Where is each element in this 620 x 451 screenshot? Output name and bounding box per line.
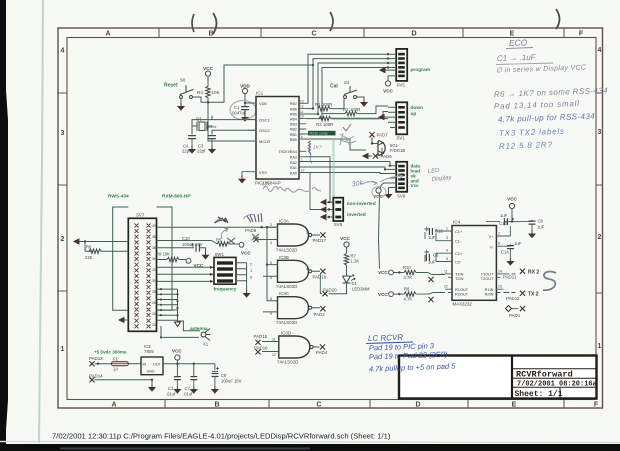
- svg-text:S0: S0: [180, 78, 186, 83]
- ground below 7805: [149, 384, 155, 391]
- long wire VCC net down to MAX resistors: [379, 193, 380, 268]
- svg-text:GND: GND: [147, 370, 156, 374]
- frame row ticks left: [58, 93, 67, 291]
- svg-text:6: 6: [301, 135, 303, 139]
- connector SV1: [384, 102, 423, 140]
- svg-text:4: 4: [306, 267, 308, 271]
- wire PAD7 to transistor: [372, 137, 378, 143]
- svg-text:74ALS02D: 74ALS02D: [276, 248, 297, 253]
- svg-text:4.7K: 4.7K: [404, 275, 413, 280]
- wire VDD to IC1 pin: [245, 94, 256, 103]
- op IC1 PIC16F84AP body: [255, 91, 299, 186]
- svg-text:VCC: VCC: [172, 349, 182, 354]
- svg-text:C: C: [311, 31, 316, 38]
- svg-text:IN: IN: [143, 363, 147, 367]
- svg-text:RX 2: RX 2: [528, 269, 539, 275]
- pad PAD19: [314, 306, 326, 317]
- svg-text:PAD13: PAD13: [89, 356, 103, 361]
- svg-text:1uF: 1uF: [428, 260, 436, 265]
- svg-text:.0047uF: .0047uF: [231, 111, 247, 116]
- svg-text:3: 3: [598, 129, 602, 136]
- ground below C2: [174, 386, 180, 393]
- wire RB0 to transistor base: [306, 139, 366, 150]
- svg-text:f.7k: f.7k: [262, 182, 271, 188]
- svg-text:74ALS02D: 74ALS02D: [277, 359, 298, 364]
- svg-text:VCC: VCC: [241, 251, 251, 256]
- svg-text:+5 5vdc 300ma: +5 5vdc 300ma: [94, 350, 127, 355]
- svg-text:12: 12: [444, 285, 448, 289]
- svg-text:TX 2: TX 2: [528, 291, 539, 297]
- svg-text:VCC: VCC: [378, 292, 388, 297]
- svg-text:3: 3: [270, 241, 272, 245]
- svg-text:1: 1: [598, 343, 602, 350]
- power VDD: [240, 84, 250, 94]
- pencil resistor sketch on RB1 net: [309, 141, 311, 155]
- svg-text:PAD4: PAD4: [316, 350, 328, 355]
- svg-text:PAD1: PAD1: [509, 313, 521, 318]
- module outline right: [157, 207, 173, 310]
- pencil X over R5: [227, 238, 235, 244]
- svg-text:PAD15: PAD15: [254, 334, 268, 339]
- svg-text:PAD8: PAD8: [245, 228, 257, 233]
- IC1 right pin stubs: [299, 103, 306, 172]
- svg-text:IC3C: IC3C: [279, 291, 289, 296]
- wire RA0 long run to SV9: [306, 173, 389, 174]
- svg-text:5: 5: [270, 261, 272, 265]
- svg-text:32: 32: [152, 268, 156, 272]
- SV7 pin numbers right column: [152, 224, 156, 327]
- svg-text:F1: F1: [113, 356, 119, 361]
- svg-text:C14: C14: [501, 250, 509, 255]
- connector SV8: [327, 198, 376, 227]
- svg-text:VCC: VCC: [340, 236, 350, 241]
- svg-text:RB3: RB3: [290, 123, 297, 127]
- svg-text:D1: D1: [352, 281, 358, 286]
- svg-text:T2IN: T2IN: [455, 276, 464, 281]
- pencil X near PAD8: [252, 234, 259, 240]
- svg-text:7805: 7805: [144, 349, 154, 354]
- pad PAD20: [322, 288, 337, 297]
- svg-text:7/02/2001 12:30:11p C:/Progra: 7/02/2001 12:30:11p C:/Program Files/EAG…: [52, 432, 391, 441]
- svg-text:R4: R4: [197, 90, 203, 95]
- capacitor C10: [157, 236, 206, 252]
- svg-text:R9 10K: R9 10K: [156, 252, 170, 257]
- svg-text:non-inverted: non-inverted: [347, 201, 376, 207]
- drawing frame inner border: [67, 38, 596, 400]
- svg-text:C13: C13: [499, 221, 507, 226]
- resistor R10: [378, 265, 445, 280]
- wire bus SW1 right to ground: [236, 263, 247, 290]
- wire RB6 to SV5: [306, 59, 388, 109]
- svg-text:3: 3: [446, 236, 448, 240]
- svg-text:inverted: inverted: [347, 212, 366, 218]
- svg-text:VCC: VCC: [383, 89, 393, 94]
- svg-text:OSC1: OSC1: [259, 118, 270, 123]
- svg-text:down: down: [411, 105, 424, 111]
- svg-text:RWS-434: RWS-434: [108, 194, 129, 200]
- wire RB1 stub to label: [306, 133, 308, 135]
- svg-text:T2OUT: T2OUT: [481, 276, 494, 281]
- svg-text:RB0: RB0: [290, 138, 297, 142]
- svg-text:E: E: [510, 31, 515, 38]
- svg-text:B: B: [214, 402, 219, 409]
- wire R3 to SV1 arrow (highlighted net): [331, 118, 379, 120]
- pad circle right of R5: [239, 242, 251, 255]
- IC4 right pin labels: [481, 234, 494, 296]
- pad PAD14: [89, 373, 103, 382]
- op IC4 MAX3232 body: [452, 220, 496, 307]
- svg-text:9: 9: [270, 312, 272, 316]
- svg-text:2: 2: [61, 236, 65, 243]
- svg-text:R10: R10: [403, 265, 411, 270]
- svg-text:28: 28: [152, 290, 156, 294]
- wire SV9 Vcc pin to VCC: [381, 183, 389, 188]
- svg-text:C8: C8: [538, 219, 544, 224]
- svg-text:24: 24: [152, 312, 156, 316]
- svg-text:SV9: SV9: [397, 194, 406, 199]
- svg-text:RA0: RA0: [290, 171, 297, 175]
- svg-text:1: 1: [61, 346, 65, 353]
- svg-text:1: 1: [446, 227, 448, 231]
- svg-text:22pf: 22pf: [197, 149, 206, 154]
- wire MCLR net to program header: [208, 65, 313, 102]
- power VCC above R4: [203, 66, 213, 76]
- wire bus SV7 to SW1: [157, 267, 211, 281]
- wire staircase bus SV7 to ground: [157, 289, 201, 331]
- svg-text:17: 17: [301, 169, 305, 173]
- svg-text:VCC: VCC: [507, 197, 517, 202]
- svg-text:VCC: VCC: [203, 66, 213, 71]
- column letters top: [105, 31, 583, 38]
- svg-text:IC3A: IC3A: [279, 219, 289, 224]
- svg-text:frequency: frequency: [214, 287, 237, 293]
- svg-text:PAD20: PAD20: [323, 288, 337, 293]
- IC1 left pin stubs: [248, 103, 256, 172]
- svg-text:7/02/2001 08:20:16a: 7/02/2001 08:20:16a: [517, 380, 598, 388]
- svg-text:SV1: SV1: [397, 136, 406, 141]
- svg-text:0: 0: [250, 276, 252, 280]
- module outline left: [113, 207, 129, 310]
- svg-text:V+: V+: [489, 234, 495, 239]
- power VCC above R7: [340, 236, 350, 253]
- svg-text:6: 6: [270, 276, 272, 280]
- pencil squiggle S near RX2: [543, 272, 556, 291]
- svg-text:4: 4: [61, 48, 65, 55]
- svg-text:C2-: C2-: [455, 260, 462, 265]
- svg-text:LED: LED: [428, 168, 441, 175]
- svg-text:ECO: ECO: [509, 37, 528, 48]
- capacitor C8: [511, 219, 545, 231]
- svg-text:40: 40: [152, 224, 156, 228]
- svg-text:2: 2: [598, 234, 602, 241]
- svg-text:S4: S4: [344, 80, 350, 85]
- switch S4 Cal: [330, 80, 364, 99]
- wire PAD14 to ground: [95, 380, 152, 384]
- frame column ticks top: [159, 28, 564, 38]
- svg-text:VDD: VDD: [240, 84, 250, 89]
- svg-text:38: 38: [152, 235, 156, 239]
- power VCC below SV9: [373, 188, 383, 199]
- pencil marks at RF pads top: [247, 213, 262, 222]
- svg-text:PAD12: PAD12: [506, 296, 520, 301]
- svg-text:SV8: SV8: [334, 222, 343, 227]
- svg-text:4: 4: [446, 249, 448, 253]
- gate IC3D 74ALS02D: [262, 331, 320, 365]
- node junction at reset: [207, 101, 210, 104]
- svg-text:E: E: [512, 402, 517, 409]
- svg-text:VCC: VCC: [378, 270, 388, 275]
- svg-text:up: up: [411, 112, 417, 117]
- punch hole mark left pair: [192, 14, 194, 32]
- svg-text:13: 13: [300, 99, 304, 103]
- punch hole mark middle: [330, 12, 333, 31]
- IC1 right pin labels: [278, 102, 297, 175]
- connector SV9: [389, 162, 421, 199]
- svg-text:C12: C12: [435, 229, 443, 234]
- ground below SW1 bus: [244, 290, 250, 297]
- svg-text:11: 11: [444, 269, 448, 273]
- wire RB5 row through R2 to SV1: [322, 106, 388, 114]
- wire IC3B out to LED pad: [320, 274, 322, 294]
- fuse F1: [95, 356, 141, 371]
- resistor R4: [197, 86, 221, 98]
- ground below C8: [529, 231, 535, 238]
- pad PAD7: [369, 132, 388, 137]
- ground below C1: [242, 114, 248, 121]
- svg-text:RB4: RB4: [290, 118, 297, 122]
- capacitor C12: [425, 227, 446, 241]
- svg-text:OSC2: OSC2: [259, 128, 270, 133]
- capacitor C13: [486, 213, 514, 236]
- pad IC3D output X: [320, 344, 325, 349]
- pad PAD8: [245, 226, 276, 242]
- svg-text:6: 6: [498, 242, 500, 246]
- svg-text:34: 34: [152, 257, 156, 261]
- wire VCC to R4: [207, 76, 209, 86]
- punch hole mark right: [556, 9, 560, 29]
- svg-text:C2+: C2+: [455, 251, 463, 256]
- wire RA3 down to SV8 area: [306, 157, 332, 202]
- svg-text:10K: 10K: [212, 90, 221, 95]
- svg-text:RA2: RA2: [290, 161, 297, 165]
- pad arrows on SV8 pins: [321, 200, 326, 205]
- svg-text:LC RCVR: LC RCVR: [368, 333, 404, 343]
- svg-text:PAD14: PAD14: [89, 373, 103, 378]
- svg-text:C1: C1: [234, 105, 240, 110]
- svg-text:1A: 1A: [113, 366, 118, 371]
- svg-text:100uF 16V: 100uF 16V: [221, 379, 242, 384]
- resistor R3: [316, 116, 333, 126]
- svg-text:Sheet: 1/1: Sheet: 1/1: [515, 390, 563, 399]
- svg-text:14: 14: [498, 269, 502, 273]
- svg-text:3: 3: [61, 130, 65, 137]
- LED D1: [329, 275, 370, 294]
- pad X on T2IN line: [428, 277, 433, 282]
- svg-text:VDD: VDD: [259, 101, 267, 106]
- svg-text:C1+: C1+: [455, 229, 463, 234]
- svg-text:F: F: [594, 402, 599, 409]
- pencil switch sketch below cal: [340, 133, 356, 145]
- svg-text:8: 8: [270, 297, 272, 301]
- svg-text:.01uf: .01uf: [183, 392, 193, 397]
- svg-text:26: 26: [152, 301, 156, 305]
- svg-text:Cal: Cal: [330, 84, 338, 90]
- svg-text:C2: C2: [168, 386, 174, 391]
- svg-text:C6: C6: [433, 253, 439, 258]
- frame row ticks right: [596, 93, 603, 293]
- ground below C3: [209, 146, 215, 153]
- teal highlight wire to SV8: [332, 140, 334, 197]
- svg-text:X1: X1: [203, 342, 209, 347]
- antenna X1: [160, 326, 210, 347]
- svg-text:1: 1: [306, 231, 308, 235]
- wire 7805 output rail: [163, 360, 215, 376]
- IC4 pin stubs: [445, 231, 503, 293]
- wire RA1 to SV9: [306, 167, 389, 169]
- ground below C14: [507, 258, 513, 265]
- wire RB4 to SV5: [306, 68, 388, 119]
- wire R4 to MCLR node: [208, 98, 256, 141]
- pencil scribble over R5 area: [215, 217, 228, 223]
- svg-text:R2OUT: R2OUT: [455, 291, 469, 296]
- ground below reset switch: [178, 103, 184, 110]
- pad PAD16: [254, 346, 268, 355]
- SV7 pad X marks two columns: [135, 224, 151, 329]
- net label RB1 highlighted: [308, 131, 336, 136]
- svg-text:R5: R5: [216, 238, 222, 243]
- wire R1 to cal switch: [330, 99, 344, 109]
- title block box: [399, 356, 597, 399]
- svg-text:30: 30: [152, 279, 156, 283]
- pad PAD17: [313, 232, 327, 243]
- svg-text:RCVRforward: RCVRforward: [516, 370, 573, 380]
- ground at VSS pin: [242, 172, 248, 176]
- svg-text:A: A: [105, 31, 110, 38]
- resistor R7: [344, 253, 359, 276]
- IC4 left pin labels: [455, 229, 469, 296]
- svg-text:22K: 22K: [85, 255, 93, 260]
- svg-text:F: F: [579, 31, 584, 38]
- resistor R6: [85, 242, 128, 261]
- svg-text:C: C: [316, 402, 321, 409]
- resistor R2: [343, 107, 360, 116]
- svg-text:2: 2: [250, 263, 252, 267]
- ground below staircase bus: [175, 322, 181, 327]
- svg-text:C1-: C1-: [455, 239, 462, 244]
- capacitor C3: [197, 136, 216, 154]
- svg-text:C9: C9: [221, 373, 227, 378]
- svg-text:RB2: RB2: [290, 128, 297, 132]
- capacitor C6: [425, 250, 446, 265]
- svg-text:22: 22: [152, 323, 156, 327]
- svg-text:74ALS02D: 74ALS02D: [276, 320, 297, 325]
- capacitor C9: [212, 367, 242, 386]
- pad arrow on SV1 pin: [379, 115, 384, 120]
- pad circle right of R9: [186, 258, 204, 268]
- svg-text:74ALS02D: 74ALS02D: [276, 284, 297, 289]
- wire OSC2 net: [212, 116, 256, 134]
- title block divider: [511, 356, 513, 399]
- wire RB5 to SV5: [306, 63, 388, 114]
- pad PAD12 and TX 2: [503, 291, 538, 301]
- resistor R9 10K: [156, 252, 186, 262]
- svg-text:PAD18: PAD18: [313, 275, 327, 280]
- svg-text:11: 11: [272, 338, 276, 342]
- pad PAD18: [313, 269, 327, 280]
- svg-text:VSS: VSS: [259, 170, 267, 175]
- svg-text:PAD17: PAD17: [313, 238, 327, 243]
- pad X on R2OUT line: [428, 297, 433, 302]
- power VCC below SV5: [383, 76, 393, 94]
- svg-text:1uF: 1uF: [514, 241, 522, 246]
- svg-text:Reset: Reset: [164, 83, 178, 89]
- IC1 pin numbers right: [300, 99, 305, 172]
- svg-text:36: 36: [152, 246, 156, 250]
- svg-text:1: 1: [250, 269, 252, 273]
- svg-text:RB5: RB5: [290, 113, 297, 117]
- svg-text:IC4: IC4: [453, 220, 461, 225]
- wire OSC1 net: [192, 120, 256, 134]
- svg-text:12: 12: [272, 353, 276, 357]
- wire RB7 to SV5: [306, 54, 388, 103]
- svg-text:RSSI comp: RSSI comp: [310, 132, 328, 136]
- svg-text:PAD2: PAD2: [314, 312, 326, 317]
- wire gate input bus vertical: [266, 227, 268, 301]
- svg-text:1uF: 1uF: [537, 225, 545, 230]
- svg-text:R8: R8: [404, 287, 410, 292]
- svg-text:IC1: IC1: [256, 91, 264, 96]
- pad PAD13: [89, 356, 103, 367]
- svg-text:R12 5.8 2R?: R12 5.8 2R?: [499, 140, 553, 151]
- wire left pin to arrow pad: [85, 241, 128, 243]
- svg-text:1K?: 1K?: [313, 145, 322, 151]
- switch SW1 body: [214, 252, 237, 293]
- column letters bottom: [111, 402, 598, 409]
- IC1 left pin labels: [259, 101, 270, 175]
- pad arrow far left: [74, 239, 79, 244]
- svg-text:PAD11: PAD11: [503, 275, 517, 280]
- svg-text:1.2K: 1.2K: [351, 259, 360, 264]
- svg-text:PAD7: PAD7: [377, 132, 389, 137]
- svg-text:4.7K: 4.7K: [404, 297, 413, 302]
- wire SV7 row to PAD8 and gate IC3A: [157, 226, 277, 228]
- ground below C9: [212, 386, 218, 393]
- svg-text:2: 2: [270, 223, 272, 227]
- capacitor C4: [182, 126, 196, 154]
- gate IC3C 74ALS02D: [263, 291, 320, 325]
- paper edge shadow line: [39, 0, 43, 443]
- pad PAD11 and RX 2: [503, 269, 539, 280]
- gate IC3A 74ALS02D: [267, 219, 320, 253]
- connector SV7 body: [128, 213, 156, 332]
- ground below SV9: [386, 188, 392, 199]
- svg-text:R1 100R: R1 100R: [315, 102, 332, 107]
- wire RA2 to SV9: [306, 162, 390, 166]
- svg-text:OUT: OUT: [153, 363, 162, 367]
- scanner black strip bottom edge: [0, 444, 620, 451]
- svg-text:D: D: [415, 402, 420, 409]
- pad arrow on SV5 pin: [380, 68, 385, 73]
- svg-text:1uF: 1uF: [428, 235, 436, 240]
- svg-text:A: A: [111, 402, 116, 409]
- power VCC above C2: [172, 349, 182, 361]
- capacitor C7: [183, 377, 197, 397]
- pad PAD1 pair: [506, 306, 526, 319]
- svg-text:MCLR: MCLR: [259, 139, 270, 144]
- pencil scribble under IC1: [263, 187, 321, 193]
- svg-text:RB1: RB1: [290, 133, 297, 137]
- svg-text:antenna: antenna: [190, 326, 208, 331]
